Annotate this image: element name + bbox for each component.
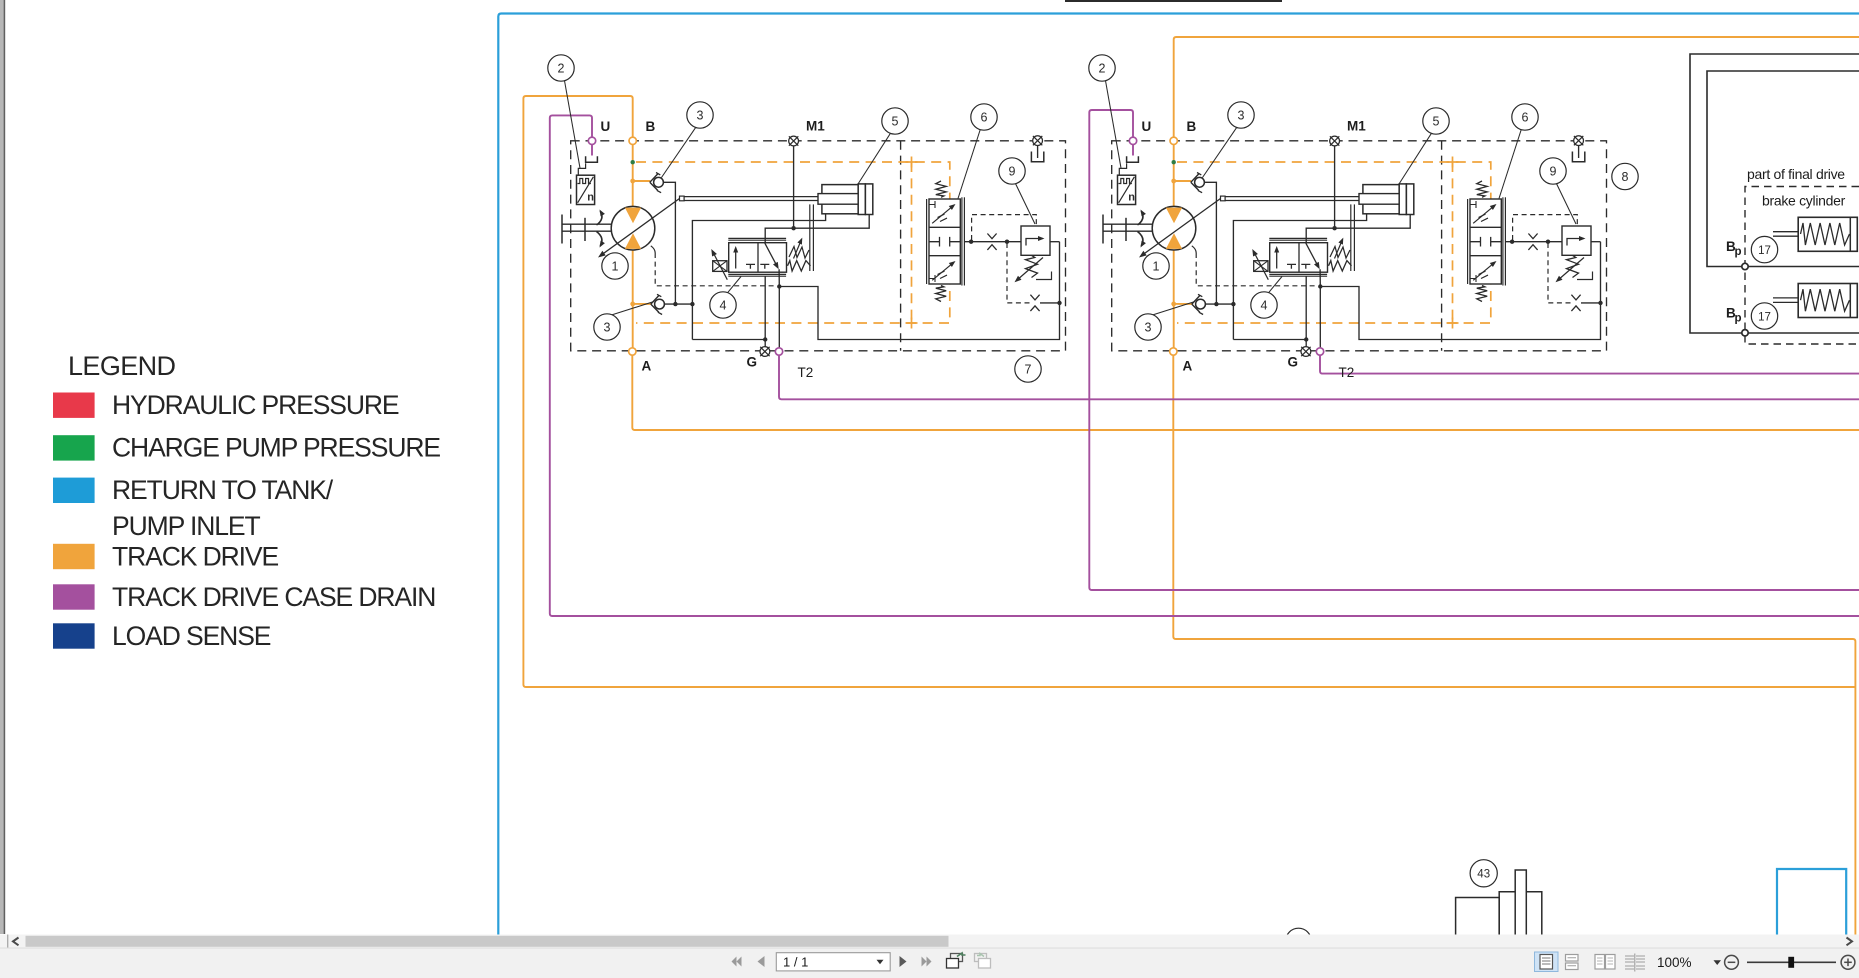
svg-text:3: 3: [604, 320, 611, 334]
svg-text:LEGEND: LEGEND: [68, 351, 176, 381]
pump circuit R: port U plug cup: [1127, 156, 1139, 162]
pump circuit L: port U stub (case drain): [591, 145, 593, 156]
callout leader 2: [565, 81, 581, 168]
return-to-tank blue border line: [498, 14, 1859, 936]
svg-text:RETURN TO TANK/: RETURN TO TANK/: [112, 475, 334, 505]
relief valve R spring: [1567, 255, 1579, 277]
servo cylinder R pipe rod side to M1 tee: [1306, 215, 1410, 243]
swash link rod R: [1225, 196, 1359, 198]
svg-text:7: 7: [1025, 362, 1032, 376]
test port symbol top R: [1574, 136, 1584, 146]
shuttle valve R body: [1470, 199, 1501, 284]
shuttle valve R bottom cell flow arrow: [1473, 262, 1495, 280]
variable displacement pump L circle: [611, 206, 655, 250]
wire lower check valve output: [664, 303, 692, 305]
wire case drain right pump U (purple): [1089, 110, 1859, 590]
callout leader 4: [1269, 277, 1283, 293]
test port symbol top L: [1033, 136, 1043, 146]
shuttle valve R mid cell blocked ports: [1470, 237, 1481, 247]
svg-text:8: 8: [1622, 170, 1629, 184]
junction dot G rail: [1304, 337, 1308, 341]
svg-text:A: A: [1183, 359, 1193, 374]
test port stub R: [1578, 146, 1580, 158]
brake cylinder 2 body: [1798, 284, 1857, 318]
variable displacement pump R circle: [1152, 206, 1196, 250]
svg-text:1: 1: [1153, 259, 1160, 273]
check valve R-lower poppet: [1196, 299, 1206, 309]
speed sensor R body: [1118, 175, 1136, 204]
svg-text:M1: M1: [806, 119, 825, 134]
horizontal scrollbar: [0, 935, 1859, 949]
relief valve R adjust arrow: [1558, 258, 1585, 281]
svg-text:6: 6: [981, 110, 988, 124]
relief valve R arrow: [1567, 239, 1584, 246]
pump L swashplate arrow: [601, 199, 680, 256]
shuttle valve L centering spring top: [936, 181, 946, 197]
callout circle 1: [1143, 253, 1169, 279]
svg-text:5: 5: [892, 114, 899, 128]
servo cylinder L end cap: [865, 184, 872, 215]
node brake line junction 1: [1742, 263, 1748, 269]
pump circuit R: wire B port to pump inlet (orange): [1173, 145, 1175, 208]
wire relief output: [1591, 241, 1601, 243]
check valve L-lower seat: [651, 295, 659, 312]
toolbar previous view icon: [951, 954, 963, 962]
port T2 node: [775, 348, 782, 355]
callout circle 3 lower: [594, 314, 620, 340]
shuttle valve R top cell flow arrow: [1473, 205, 1495, 223]
shuttle valve L side rails: [926, 199, 928, 284]
port M1 symbol: [1330, 136, 1340, 146]
relief valve L adjust arrow: [1017, 258, 1044, 281]
relief valve L arrow: [1026, 239, 1043, 246]
toolbar zoom in button: [1841, 955, 1855, 969]
pump circuit R: dashed divider between pump and valve block: [1441, 141, 1443, 351]
control valve L left cell arrow: [735, 248, 737, 269]
shuttle valve L top cell port tick: [929, 201, 935, 208]
wire valve tank line down to G: [1305, 276, 1307, 347]
junction dot shuttle output: [1510, 240, 1514, 244]
control valve L tank T marks: [746, 264, 755, 268]
speed sensor R teeth: [1119, 179, 1132, 184]
feedback link L: [809, 204, 811, 271]
pump circuit R: orange dashed divider: [1452, 162, 1454, 323]
speed sensor L body: [577, 175, 595, 204]
svg-text:n: n: [587, 191, 594, 203]
shuttle valve L top cell flow arrow: [932, 205, 954, 223]
callout circle 6: [971, 104, 997, 130]
pump circuit R: port U stub (case drain): [1132, 145, 1134, 156]
pump L flow triangle top: [625, 208, 641, 224]
node brake line junction 2: [1742, 330, 1748, 336]
check valve L-upper seat: [650, 174, 658, 191]
orifice lower R: [1571, 295, 1580, 300]
pump circuit R: orange branch to upper check valve: [1174, 180, 1192, 182]
legend swatch TRACK DRIVE CASE DRAIN: [53, 584, 95, 609]
junction dot shuttle output: [969, 240, 973, 244]
cut-off callout circle at bottom: [1286, 928, 1312, 954]
wire case drain left pump U (purple): [550, 115, 1859, 616]
control valve L adjustable spring: [789, 247, 809, 259]
check valve R-lower seat: [1192, 295, 1200, 312]
junction dot relief input: [1546, 240, 1550, 244]
svg-text:M1: M1: [1347, 119, 1366, 134]
wire M1 gauge line L: [793, 146, 795, 228]
shuttle valve R centering spring top: [1477, 181, 1487, 197]
svg-text:4: 4: [720, 298, 727, 312]
shuttle valve L bottom cell port tick: [929, 275, 935, 282]
junction dot valve output tee: [1318, 284, 1322, 288]
shuttle valve L bottom cell flow arrow: [932, 262, 954, 280]
callout circle 9: [999, 158, 1025, 184]
pump R swash link square: [1221, 196, 1226, 201]
svg-text:9: 9: [1009, 164, 1016, 178]
pump circuit R: port U node: [1129, 137, 1136, 144]
shuttle valve R top cell port tick: [1470, 201, 1476, 208]
junction dot valve output tee: [777, 284, 781, 288]
scrollbar left arrow: [13, 938, 19, 946]
wire relief output: [1050, 241, 1060, 243]
pump circuit L: port B node: [629, 137, 636, 144]
port M1 symbol: [789, 136, 799, 146]
callout circle 17 upper: [1751, 236, 1777, 262]
control valve R tank T marks: [1287, 264, 1296, 268]
servo cylinder R rod: [1359, 194, 1399, 205]
wire valve tank line down to G: [764, 276, 766, 347]
test port stub L: [1037, 146, 1039, 158]
junction dot relief input: [1005, 240, 1009, 244]
brake cylinder dashed box: [1745, 187, 1859, 345]
pump circuit L: dashed divider between pump and valve block: [900, 141, 902, 351]
callout leader 6: [958, 129, 980, 198]
svg-text:17: 17: [1758, 311, 1771, 323]
port G symbol: [1301, 347, 1311, 357]
wire lower orifice to return rail: [1581, 302, 1601, 304]
svg-text:3: 3: [1238, 108, 1245, 122]
control valve L lower frame lines: [728, 273, 786, 275]
test port plug cup L: [1031, 152, 1043, 162]
callout circle 4: [710, 292, 736, 318]
check valve R-upper poppet: [1195, 177, 1205, 187]
control valve R left cell arrow: [1276, 248, 1278, 269]
junction dot cylinder rail: [1231, 302, 1235, 306]
svg-text:3: 3: [697, 108, 704, 122]
check valve L-upper poppet: [654, 177, 664, 187]
brake cylinder 1 body: [1798, 217, 1857, 251]
wire tank rail to G port: [1233, 339, 1306, 341]
callout leader 3 upper: [1203, 127, 1237, 177]
svg-text:2: 2: [1099, 61, 1106, 75]
callout leader 2: [1106, 81, 1122, 168]
pump R rotation arrows: [1138, 211, 1143, 225]
svg-text:T2: T2: [798, 365, 814, 380]
final drive outer box: [1690, 54, 1859, 333]
orifice upper L: [987, 234, 996, 239]
wire lower orifice to return rail: [1040, 302, 1060, 304]
callout circle 9: [1540, 158, 1566, 184]
callout circle 8: [1612, 163, 1638, 189]
sidebar edge strip: [0, 0, 4, 934]
control valve L spring: [788, 261, 811, 271]
svg-text:5: 5: [1433, 114, 1440, 128]
wire M1 gauge line R: [1334, 146, 1336, 228]
control valve R adjustable spring: [1330, 247, 1350, 259]
proportional solenoid L: [713, 261, 727, 272]
shuttle valve R centering spring bottom: [1477, 286, 1487, 302]
pump L drive shaft: [562, 223, 612, 225]
wire T2 drop: [778, 287, 780, 348]
toolbar last page button: [922, 957, 927, 967]
brake cylinder 2 piston line: [1849, 284, 1851, 318]
pump circuit L: orange dashed servo-control box: [636, 162, 950, 323]
pump circuit L: orange corner markers: [906, 161, 918, 163]
pump circuit L: orange branch to lower check valve: [633, 303, 652, 305]
test port plug cup R: [1572, 152, 1584, 162]
svg-text:brake cylinder: brake cylinder: [1762, 193, 1846, 209]
pump circuit L: wire B port to pump inlet (orange): [632, 145, 634, 208]
port T2 node: [1316, 348, 1323, 355]
pump circuit R: orange corner markers: [1447, 161, 1459, 163]
callout leader 3 lower: [612, 302, 654, 315]
wire shuttle output to relief valve: [964, 241, 1021, 243]
servo cylinder L pipe rod side to M1 tee: [765, 215, 869, 243]
junction dot check rail: [673, 302, 677, 306]
svg-text:PUMP INLET: PUMP INLET: [112, 511, 260, 541]
callout leader 4: [728, 277, 742, 293]
control valve L proportional arrow: [765, 243, 778, 267]
callout circle 3 upper: [1228, 102, 1254, 128]
pilot dashed line to lower orifice L: [1007, 243, 1030, 303]
junction dot cylinder rail: [690, 302, 694, 306]
pump R flow triangle bottom: [1166, 233, 1182, 249]
solenoid arrow L: [712, 251, 727, 280]
svg-text:U: U: [1142, 119, 1152, 134]
toolbar zoom out button: [1725, 955, 1739, 969]
callout circle 2: [1089, 55, 1115, 81]
pump circuit R: orange branch to lower check valve: [1174, 303, 1193, 305]
svg-text:9: 9: [1550, 164, 1557, 178]
control valve L body: [729, 243, 787, 273]
pump circuit L: main dashed enclosure box: [571, 141, 1066, 351]
wire upper check valve output to servo rail: [663, 182, 675, 304]
control valve R body: [1270, 243, 1328, 273]
bottom toolbar: [0, 948, 1859, 978]
callout leader 3 lower: [1153, 302, 1195, 315]
port G symbol: [760, 347, 770, 357]
svg-text:1: 1: [612, 259, 619, 273]
relief valve L body: [1021, 226, 1050, 255]
pump circuit L: port A node: [629, 348, 636, 355]
legend swatch HYDRAULIC PRESSURE: [53, 393, 95, 418]
control valve R upper frame lines: [1269, 237, 1327, 239]
relief valve R body: [1562, 226, 1591, 255]
junction dot relief return: [1598, 301, 1602, 305]
legend swatch LOAD SENSE: [53, 623, 95, 648]
wire track drive right pump B line (orange): [1174, 37, 1859, 138]
toolbar next page button: [900, 956, 907, 967]
shuttle valve L mid cell blocked ports: [929, 237, 940, 247]
pilot dashed line over relief R: [1513, 215, 1578, 240]
speed sensor L mount bracket: [578, 163, 585, 175]
toolbar page number box: [776, 953, 890, 971]
callout circle 4: [1251, 292, 1277, 318]
svg-text:43: 43: [1477, 869, 1490, 881]
callout leader 6: [1499, 129, 1521, 198]
pump circuit L: wire pump outlet to A port (orange): [632, 249, 634, 348]
pump case drain pilot line R: [1192, 246, 1196, 253]
callout circle 5: [1423, 108, 1449, 134]
svg-text:G: G: [747, 355, 758, 370]
svg-text:3: 3: [1145, 320, 1152, 334]
speed sensor R diagonal: [1119, 177, 1135, 203]
toolbar previous page button: [758, 956, 765, 967]
callout circle 3 upper: [687, 102, 713, 128]
pump circuit L: junction dot lower branch (orange): [630, 302, 635, 307]
svg-text:17: 17: [1758, 245, 1771, 257]
svg-text:100%: 100%: [1657, 955, 1692, 970]
pump circuit L: charge pressure junction dot (green): [631, 160, 635, 164]
legend swatch TRACK DRIVE: [53, 544, 95, 569]
svg-text:T2: T2: [1339, 365, 1355, 380]
legend swatch RETURN TO TANK/: [53, 478, 95, 503]
control valve R proportional arrow: [1306, 243, 1319, 267]
servo cylinder R end cap: [1406, 184, 1413, 215]
speed sensor L diagonal: [578, 177, 594, 203]
pump circuit R: port B node: [1170, 137, 1177, 144]
wire valve output to T2 junction: [778, 269, 780, 286]
relief valve L spring: [1026, 255, 1038, 277]
callout circle 6: [1512, 104, 1538, 130]
svg-text:4: 4: [1261, 298, 1268, 312]
junction dot G rail: [763, 337, 767, 341]
wire track drive right pump A line (orange): [1173, 355, 1855, 935]
svg-text:TRACK DRIVE CASE DRAIN: TRACK DRIVE CASE DRAIN: [112, 582, 435, 612]
callout leader 5: [1399, 133, 1432, 184]
pump circuit R: main dashed enclosure box: [1112, 141, 1607, 351]
svg-text:CHARGE PUMP PRESSURE: CHARGE PUMP PRESSURE: [112, 433, 440, 463]
pump R drive shaft: [1103, 223, 1153, 225]
control valve R lower frame lines: [1269, 273, 1327, 275]
callout circle 5: [882, 108, 908, 134]
scrollbar right arrow: [1847, 938, 1853, 946]
wire track drive left pump B loop (orange): [523, 96, 1855, 687]
pump circuit R: junction dot lower branch (orange): [1171, 302, 1176, 307]
control valve R spring: [1329, 261, 1352, 271]
toolbar continuous page icon: [1566, 955, 1579, 962]
callout circle 2: [548, 55, 574, 81]
toolbar two page icon: [1595, 955, 1605, 970]
wire valve output to T2 junction: [1319, 269, 1321, 286]
wire T2 drop: [1319, 287, 1321, 348]
servo cylinder R pipe bottom-left: [1233, 214, 1366, 340]
toolbar zoom slider: [1747, 961, 1836, 963]
solenoid arrow R: [1253, 251, 1268, 280]
callout leader 3 upper: [662, 127, 696, 177]
svg-text:LOAD SENSE: LOAD SENSE: [112, 621, 271, 651]
callout leader 9: [1557, 184, 1577, 224]
pilot dashed line over relief L: [972, 215, 1037, 240]
cut-off schematic line at top edge: [1065, 0, 1282, 2]
cooler assembly cut off at bottom: [1456, 898, 1500, 936]
svg-text:U: U: [601, 119, 611, 134]
pump circuit L: junction dot upper branch (orange): [630, 179, 635, 184]
brake cylinder 1 rod: [1773, 231, 1799, 233]
toolbar first page button: [732, 957, 737, 967]
check valve R-upper seat: [1191, 174, 1199, 191]
pump circuit L: port U plug cup: [586, 156, 598, 162]
pump L flow triangle bottom: [625, 233, 641, 249]
pump circuit R: port A node: [1170, 348, 1177, 355]
wire tank rail to G port: [692, 339, 765, 341]
shuttle valve L body: [929, 199, 960, 284]
servo cylinder R piston: [1399, 184, 1406, 215]
svg-text:2: 2: [558, 61, 565, 75]
pump circuit R: junction dot upper branch (orange): [1171, 179, 1176, 184]
wire lower check valve output: [1205, 303, 1233, 305]
pump circuit R: wire pump outlet to A port (orange): [1173, 249, 1175, 348]
pump case drain pilot line L: [651, 246, 655, 253]
wire case drain left pump T2 (purple): [779, 355, 1859, 399]
control valve L upper frame lines: [728, 237, 786, 239]
servo cylinder L pipe bottom-left: [692, 214, 825, 340]
shuttle valve L centering spring bottom: [936, 286, 946, 302]
pilot dashed line to lower orifice R: [1548, 243, 1571, 303]
junction dot M1 tee: [1332, 226, 1336, 230]
orifice lower L: [1030, 295, 1039, 300]
svg-text:1 / 1: 1 / 1: [783, 954, 808, 969]
servo cylinder L rod: [818, 194, 858, 205]
toolbar two page continuous icon: [1625, 956, 1645, 969]
pump circuit L: orange dashed divider: [911, 162, 913, 323]
wire shuttle output to relief valve: [1505, 241, 1562, 243]
final drive inner box: [1707, 71, 1859, 267]
svg-text:n: n: [1128, 191, 1135, 203]
callout circle 7: [1015, 356, 1041, 382]
pump R flow triangle top: [1166, 208, 1182, 224]
servo cylinder L piston: [858, 184, 865, 215]
svg-text:A: A: [642, 359, 652, 374]
svg-text:G: G: [1288, 355, 1299, 370]
speed sensor L teeth: [578, 179, 591, 184]
wire case drain right pump T2 (purple): [1320, 355, 1859, 374]
callout leader 5: [858, 133, 891, 184]
svg-text:B: B: [1187, 119, 1197, 134]
speed sensor R mount bracket: [1119, 163, 1126, 175]
pump L rotation arrows: [597, 211, 602, 225]
callout circle 43: [1470, 860, 1497, 887]
brake cylinder 2 spring: [1801, 289, 1850, 311]
brake cylinder 1 piston line: [1849, 217, 1851, 251]
shuttle valve R bottom cell port tick: [1470, 275, 1476, 282]
svg-text:p: p: [1735, 246, 1742, 258]
brake cylinder 2 rod: [1773, 297, 1799, 299]
toolbar single page icon (selected): [1535, 952, 1559, 972]
legend swatch CHARGE PUMP PRESSURE: [53, 435, 95, 460]
wire upper check valve output to servo rail: [1204, 182, 1216, 304]
servo cylinder L body: [822, 185, 858, 214]
wire valve output to servo return rail: [1320, 242, 1600, 340]
servo cylinder R body: [1363, 185, 1399, 214]
svg-text:6: 6: [1522, 110, 1529, 124]
feedback link R: [1350, 204, 1352, 271]
wire track drive left pump A line (orange): [632, 355, 1859, 430]
svg-text:p: p: [1735, 313, 1742, 325]
return to tank box bottom right (blue): [1777, 869, 1846, 935]
svg-text:HYDRAULIC PRESSURE: HYDRAULIC PRESSURE: [112, 390, 399, 420]
callout leader 9: [1016, 184, 1036, 224]
wire valve output to servo return rail: [779, 242, 1059, 340]
pump circuit R: orange dashed servo-control box: [1177, 162, 1491, 323]
